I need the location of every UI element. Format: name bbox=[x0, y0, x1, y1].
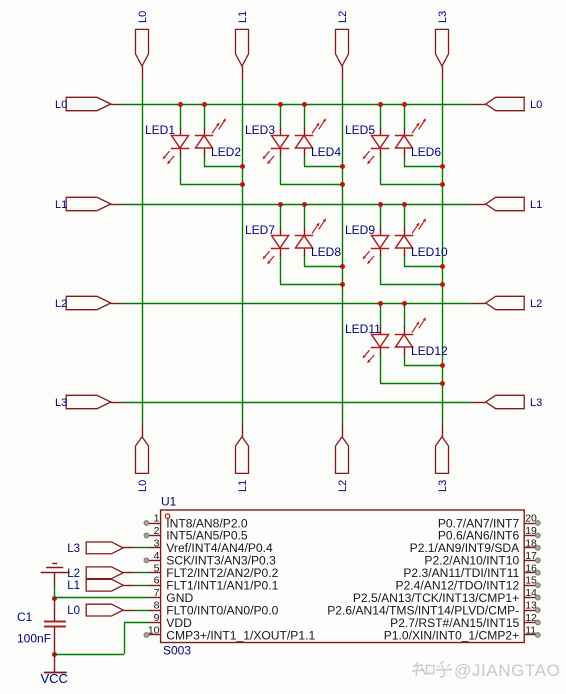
port L3 (top, column) bbox=[436, 11, 450, 80]
wire: LED10 anode-side drop from row L1 bbox=[404, 204, 406, 229]
U1 pin 5 (FLT2/INT2/AN2/P0.2) bbox=[149, 562, 279, 580]
port L0 (to U1) bbox=[67, 604, 134, 617]
junction: LED5 tap on row L0 bbox=[378, 102, 383, 107]
svg-text:LED7: LED7 bbox=[245, 223, 275, 237]
LED5 (diode, cathode down) bbox=[345, 123, 389, 164]
LED12 (diode, cathode up) bbox=[395, 317, 448, 358]
port L3 (left, output to row) bbox=[55, 395, 123, 409]
svg-text:7: 7 bbox=[154, 587, 160, 599]
LED11 (diode, cathode down) bbox=[345, 322, 389, 363]
wire: LED1 anode drop from row L0 bbox=[180, 104, 182, 129]
svg-text:L3: L3 bbox=[530, 397, 542, 409]
svg-text:4: 4 bbox=[154, 550, 160, 562]
LED8 (diode, cathode up) bbox=[295, 218, 342, 259]
U1 pin 16 (P2.3/AN11/TDI/INT11) bbox=[403, 562, 540, 580]
svg-text:L2: L2 bbox=[337, 11, 349, 23]
U1 pin 4 (SCK/INT3/AN3/P0.3) bbox=[144, 550, 276, 568]
svg-text:L0: L0 bbox=[55, 99, 67, 111]
wire: LED6 anode-side drop from row L0 bbox=[404, 104, 406, 129]
U1 pin 8 (FLT0/INT0/AN0/P0.0) bbox=[149, 600, 279, 618]
wire: LED11 lower leg to column L3 bbox=[380, 354, 442, 384]
wire: LED6 lower leg to column L3 bbox=[404, 155, 442, 167]
VCC power symbol bbox=[41, 654, 68, 686]
svg-text:L1: L1 bbox=[237, 11, 249, 23]
wire: L1 flag to U1 bbox=[134, 585, 149, 587]
junction: LED9 tap on row L1 bbox=[378, 202, 383, 207]
wire: vertical net L2 column bbox=[342, 79, 344, 423]
svg-text:VCC: VCC bbox=[41, 671, 68, 686]
svg-text:LED11: LED11 bbox=[345, 322, 381, 336]
wire: LED3 anode drop from row L0 bbox=[280, 104, 282, 129]
wire: LED11 anode drop from row L2 bbox=[380, 303, 382, 328]
port L1 (left, output to row) bbox=[55, 197, 123, 211]
LED2 (diode, cathode up) bbox=[195, 118, 242, 159]
junction: LED3 tap on row L0 bbox=[278, 102, 283, 107]
U1 pin 15 (P2.4/AN12/TDO/INT12) bbox=[396, 575, 541, 593]
svg-text:L1: L1 bbox=[55, 199, 67, 211]
svg-text:L2: L2 bbox=[55, 298, 67, 310]
junction: VCC node at C1 bottom bbox=[52, 652, 57, 657]
port L2 (to U1) bbox=[67, 567, 134, 580]
wire: LED12 anode-side drop from row L2 bbox=[404, 303, 406, 328]
wire: horizontal net L3 row bbox=[123, 402, 474, 404]
C1 designator label bbox=[17, 610, 33, 624]
svg-text:U1: U1 bbox=[161, 495, 177, 509]
wire: LED1 lower leg to column L1 bbox=[180, 155, 242, 185]
svg-text:L3: L3 bbox=[437, 11, 449, 23]
LED1 (diode, cathode down) bbox=[145, 123, 189, 164]
junction: LED6 tap on column L3 bbox=[440, 164, 445, 169]
LED10 (diode, cathode up) bbox=[395, 218, 448, 259]
U1 designator label bbox=[161, 495, 177, 509]
port L1 (to U1) bbox=[67, 579, 134, 592]
U1 pin 20 (P0.7/AN7/INT7) bbox=[438, 513, 540, 531]
U1 pin 1 (INT8/AN8/P2.0) bbox=[144, 513, 248, 531]
junction: LED8 tap on row L1 bbox=[302, 202, 307, 207]
C1 value label 100nF bbox=[17, 632, 51, 646]
port L0 (right) bbox=[474, 97, 543, 111]
U1 pin 17 (P2.2/AN10/INT10) bbox=[424, 550, 540, 568]
svg-text:LED4: LED4 bbox=[311, 145, 341, 159]
svg-text:L0: L0 bbox=[530, 99, 542, 111]
port L2 (top, column) bbox=[336, 11, 350, 80]
wire: GND node to U1 pin 7 bbox=[55, 597, 149, 599]
wire: LED3 lower leg to column L2 bbox=[280, 155, 342, 185]
port L2 (right) bbox=[474, 296, 543, 310]
svg-text:5: 5 bbox=[154, 562, 160, 574]
junction: LED4 tap on column L2 bbox=[340, 164, 345, 169]
watermark 知乎 @JIANGTAO (decorative, drawn) bbox=[412, 661, 560, 680]
wire: LED9 anode drop from row L1 bbox=[380, 204, 382, 229]
svg-text:CMP3+/INT1_1/XOUT/P1.1: CMP3+/INT1_1/XOUT/P1.1 bbox=[166, 628, 315, 642]
junction: LED8 tap on column L2 bbox=[340, 264, 345, 269]
junction: LED12 tap on row L2 bbox=[402, 301, 407, 306]
wire: horizontal net L1 row bbox=[123, 204, 474, 206]
op-amp-style IC body U1 (microcontroller S003) bbox=[161, 510, 525, 643]
junction: LED11 tap on column L3 bbox=[440, 381, 445, 386]
wire: L0 flag to U1 bbox=[134, 610, 149, 612]
svg-text:LED5: LED5 bbox=[345, 123, 375, 137]
svg-text:11: 11 bbox=[525, 624, 536, 636]
wire: vertical net L0 column bbox=[142, 79, 144, 423]
junction: LED11 tap on row L2 bbox=[378, 301, 383, 306]
LED9 (diode, cathode down) bbox=[345, 223, 389, 264]
junction: GND node at C1 top bbox=[52, 596, 57, 601]
junction: LED7 tap on row L1 bbox=[278, 202, 283, 207]
port L0 (bottom, column) bbox=[136, 423, 150, 492]
wire: LED8 anode-side drop from row L1 bbox=[304, 204, 306, 229]
junction: LED5 tap on column L3 bbox=[440, 182, 445, 187]
svg-text:LED8: LED8 bbox=[311, 245, 341, 259]
wire: vertical net L3 column bbox=[442, 79, 444, 423]
port L1 (bottom, column) bbox=[236, 423, 250, 492]
junction: LED1 tap on column L1 bbox=[240, 182, 245, 187]
U1 pin 14 (P2.5/AN13/TCK/INT13/CMP1+) bbox=[353, 587, 540, 605]
svg-text:1: 1 bbox=[154, 513, 160, 525]
junction: LED10 tap on row L1 bbox=[402, 202, 407, 207]
wire: horizontal net L2 row bbox=[123, 303, 474, 305]
junction: LED9 tap on column L3 bbox=[440, 282, 445, 287]
U1 part number label S003 bbox=[163, 644, 191, 658]
svg-text:LED2: LED2 bbox=[211, 145, 241, 159]
wire: ground stub to GND node bbox=[54, 586, 56, 598]
svg-text:8: 8 bbox=[154, 600, 160, 612]
junction: LED4 tap on row L0 bbox=[302, 102, 307, 107]
LED7 (diode, cathode down) bbox=[245, 223, 289, 264]
svg-text:P1.0/XIN/INT0_1/CMP2+: P1.0/XIN/INT0_1/CMP2+ bbox=[384, 628, 519, 642]
svg-text:L1: L1 bbox=[237, 480, 249, 492]
svg-text:2: 2 bbox=[154, 525, 160, 537]
LED3 (diode, cathode down) bbox=[245, 123, 289, 164]
svg-text:3: 3 bbox=[154, 537, 160, 549]
port L0 (top, column) bbox=[136, 11, 150, 80]
wire: horizontal net L0 row bbox=[123, 104, 474, 106]
junction: LED10 tap on column L3 bbox=[440, 264, 445, 269]
svg-text:L2: L2 bbox=[67, 568, 80, 580]
port L2 (bottom, column) bbox=[336, 423, 350, 492]
U1 pin 13 (P2.6/AN14/TMS/INT14/PLVD/CMP-) bbox=[327, 600, 540, 618]
svg-text:L2: L2 bbox=[337, 480, 349, 492]
svg-text:L2: L2 bbox=[530, 298, 542, 310]
wire: LED7 anode drop from row L1 bbox=[280, 204, 282, 229]
svg-text:LED6: LED6 bbox=[411, 145, 441, 159]
junction: LED3 tap on column L2 bbox=[340, 182, 345, 187]
wire: LED2 lower leg to column L1 bbox=[204, 155, 242, 167]
port L1 (right) bbox=[474, 197, 543, 211]
wire: L3 flag to U1 bbox=[134, 547, 149, 549]
wire: LED2 anode-side drop from row L0 bbox=[204, 104, 206, 129]
U1 pin 6 (FLT1/INT1/AN1/P0.1) bbox=[149, 575, 279, 593]
LED6 (diode, cathode up) bbox=[395, 118, 442, 159]
wire: vertical net L1 column bbox=[242, 79, 244, 423]
ground (earth) symbol bbox=[41, 564, 70, 587]
U1 pin 2 (INT5/AN5/P0.5) bbox=[144, 525, 248, 543]
U1 pin 3 (Vref/INT4/AN4/P0.4) bbox=[149, 537, 273, 555]
wire: LED7 lower leg to column L2 bbox=[280, 255, 342, 285]
U1 pin 12 (P2.7/RST#/AN15/INT15) bbox=[390, 612, 540, 630]
svg-text:LED3: LED3 bbox=[245, 123, 275, 137]
LED4 (diode, cathode up) bbox=[295, 118, 342, 159]
port L3 (right) bbox=[474, 395, 543, 409]
svg-text:S003: S003 bbox=[163, 644, 191, 658]
U1 pin 10 (CMP3+/INT1_1/XOUT/P1.1) bbox=[144, 624, 315, 642]
U1 pin 18 (P2.1/AN9/INT9/SDA) bbox=[410, 537, 541, 555]
U1 pin 11 (P1.0/XIN/INT0_1/CMP2+) bbox=[384, 624, 540, 642]
port L2 (left, output to row) bbox=[55, 296, 123, 310]
svg-text:9: 9 bbox=[154, 612, 160, 624]
svg-text:L3: L3 bbox=[67, 543, 80, 555]
wire: LED9 lower leg to column L3 bbox=[380, 255, 442, 285]
wire: LED12 lower leg to column L3 bbox=[404, 354, 442, 366]
svg-text:@JIANGTAO: @JIANGTAO bbox=[454, 661, 560, 680]
svg-text:L0: L0 bbox=[137, 480, 149, 492]
junction: LED2 tap on row L0 bbox=[202, 102, 207, 107]
junction: LED7 tap on column L2 bbox=[340, 282, 345, 287]
wire: LED5 lower leg to column L3 bbox=[380, 155, 442, 185]
wire: LED4 lower leg to column L2 bbox=[304, 155, 342, 167]
svg-text:LED9: LED9 bbox=[345, 223, 375, 237]
U1 pin 19 (P0.6/AN6/INT6) bbox=[438, 525, 540, 543]
port L0 (left, output to row) bbox=[55, 97, 123, 111]
svg-text:L3: L3 bbox=[55, 397, 67, 409]
svg-text:LED10: LED10 bbox=[411, 245, 448, 259]
port L3 (bottom, column) bbox=[436, 423, 450, 492]
junction: LED12 tap on column L3 bbox=[440, 363, 445, 368]
junction: LED1 tap on row L0 bbox=[178, 102, 183, 107]
junction: LED2 tap on column L1 bbox=[240, 164, 245, 169]
port L3 (to U1) bbox=[67, 542, 134, 555]
svg-text:L0: L0 bbox=[137, 11, 149, 23]
wire: L2 flag to U1 bbox=[134, 572, 149, 574]
svg-text:L0: L0 bbox=[67, 605, 80, 617]
svg-text:100nF: 100nF bbox=[17, 632, 51, 646]
port L1 (top, column) bbox=[236, 11, 250, 80]
wire: LED5 anode drop from row L0 bbox=[380, 104, 382, 129]
wire: VCC node to U1 pin 9 (VDD) bbox=[55, 623, 149, 655]
capacitor C1 bbox=[44, 598, 66, 654]
wire: LED4 anode-side drop from row L0 bbox=[304, 104, 306, 129]
svg-text:L3: L3 bbox=[437, 480, 449, 492]
svg-text:C1: C1 bbox=[17, 610, 33, 624]
svg-text:L1: L1 bbox=[67, 580, 80, 592]
U1 pin 7 (GND) bbox=[149, 587, 194, 605]
svg-text:L1: L1 bbox=[530, 199, 542, 211]
U1 pin-1 marker circle bbox=[165, 514, 170, 519]
svg-text:LED1: LED1 bbox=[145, 123, 175, 137]
svg-text:10: 10 bbox=[148, 624, 160, 636]
svg-text:LED12: LED12 bbox=[411, 344, 448, 358]
svg-text:6: 6 bbox=[154, 575, 160, 587]
junction: LED6 tap on row L0 bbox=[402, 102, 407, 107]
wire: LED10 lower leg to column L3 bbox=[404, 255, 442, 267]
U1 pin 9 (VDD) bbox=[149, 612, 193, 630]
wire: LED8 lower leg to column L2 bbox=[304, 255, 342, 267]
